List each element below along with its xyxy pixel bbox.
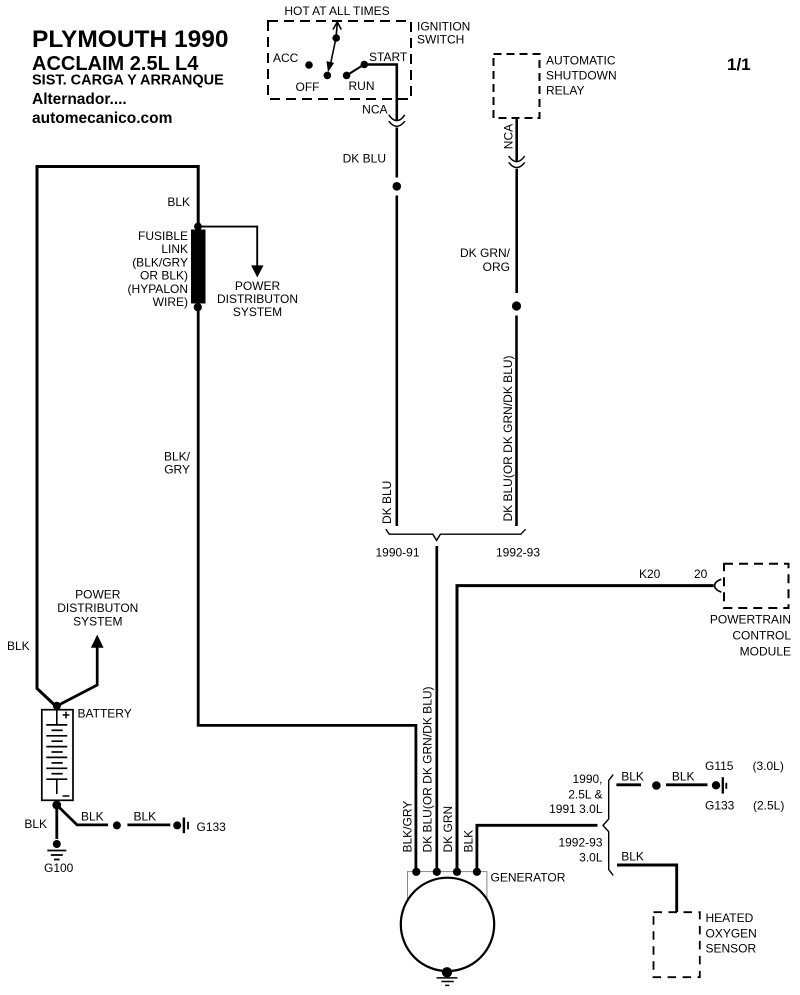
connector break symbol (relay NCA): [509, 156, 525, 162]
generator case ground symbol: [437, 978, 458, 986]
battery B1 case: [42, 710, 73, 801]
svg-text:BLK: BLK: [81, 810, 104, 824]
generator G body: [401, 878, 494, 971]
svg-text:Alternador....: Alternador....: [32, 91, 127, 108]
svg-text:G133: G133: [705, 799, 735, 813]
wire DK BLU lower segment to 1990-91 brace: [395, 196, 398, 527]
svg-text:GRY: GRY: [164, 463, 190, 477]
splice junction on branch: [652, 781, 661, 790]
switch pivot node: [332, 34, 340, 42]
svg-text:DK BLU: DK BLU: [380, 481, 394, 524]
svg-text:FUSIBLE: FUSIBLE: [138, 229, 188, 243]
svg-text:SWITCH: SWITCH: [417, 33, 464, 47]
svg-text:1990,: 1990,: [572, 772, 602, 786]
svg-text:BLK: BLK: [24, 817, 47, 831]
battery plus terminal symbol: [63, 712, 70, 719]
svg-text:1992-93: 1992-93: [496, 546, 540, 560]
wire from brace down to generator: [435, 546, 438, 872]
svg-text:OR BLK): OR BLK): [140, 269, 188, 283]
svg-text:DK GRN/: DK GRN/: [460, 246, 511, 260]
wire K20 from generator to PCM: [457, 586, 714, 872]
wire BLK generator to year brace: [477, 825, 598, 872]
heated oxygen sensor dashed box: [654, 912, 700, 977]
svg-text:BLK: BLK: [167, 195, 190, 209]
svg-text:BLK: BLK: [7, 639, 30, 653]
svg-text:20: 20: [694, 567, 708, 581]
svg-text:CONTROL: CONTROL: [732, 629, 791, 643]
svg-text:(HYPALON: (HYPALON: [128, 282, 188, 296]
node OFF: [324, 72, 332, 80]
svg-text:3.0L: 3.0L: [579, 850, 603, 864]
wire arrow to power distribution system (left, from battery +): [57, 648, 97, 707]
svg-text:2.5L &: 2.5L &: [568, 788, 602, 802]
automatic shutdown relay K1 dashed box: [494, 54, 540, 118]
generator terminal node 2: [433, 868, 441, 876]
node START: [361, 61, 369, 69]
wire DK BLU upper segment: [395, 128, 398, 178]
connector symbol at PCM: [715, 579, 722, 592]
switch wiper arrow toward OFF: [331, 38, 337, 64]
wire BLK/GRY from fusible link to generator: [198, 307, 416, 872]
svg-text:AUTOMATIC: AUTOMATIC: [546, 54, 616, 68]
svg-text:LINK: LINK: [161, 242, 188, 256]
svg-text:SENSOR: SENSOR: [706, 941, 757, 955]
svg-text:POWER: POWER: [75, 588, 121, 602]
battery negative junction node: [52, 801, 61, 810]
svg-text:RUN: RUN: [349, 79, 375, 93]
svg-text:(3.0L): (3.0L): [753, 759, 784, 773]
node ACC: [305, 61, 313, 69]
powertrain control module dashed box: [724, 564, 789, 608]
svg-text:POWER: POWER: [235, 279, 281, 293]
wire from relay down: [515, 118, 518, 161]
wire to power distribution system (right arrow): [198, 227, 257, 266]
svg-text:RELAY: RELAY: [546, 84, 584, 98]
wire BLK battery to G100: [55, 805, 58, 839]
svg-text:PLYMOUTH 1990: PLYMOUTH 1990: [32, 26, 229, 53]
svg-text:NCA: NCA: [501, 124, 515, 149]
svg-text:DK BLU(OR DK GRN/DK BLU): DK BLU(OR DK GRN/DK BLU): [501, 355, 515, 521]
svg-text:SHUTDOWN: SHUTDOWN: [546, 69, 617, 83]
ground G133 symbol: [173, 821, 181, 829]
svg-text:BLK: BLK: [621, 849, 644, 863]
svg-text:BLK: BLK: [621, 769, 644, 783]
svg-text:POWERTRAIN: POWERTRAIN: [710, 613, 791, 627]
junction node at fusible link bottom: [194, 303, 202, 311]
svg-text:1992-93: 1992-93: [558, 836, 602, 850]
svg-text:SYSTEM: SYSTEM: [233, 305, 282, 319]
svg-text:DISTRIBUTON: DISTRIBUTON: [57, 601, 138, 615]
svg-text:(BLK/GRY: (BLK/GRY: [132, 255, 188, 269]
ignition switch S1 dashed box: [268, 21, 411, 99]
switch feed arrow up to HOT: [336, 23, 337, 38]
svg-text:DK BLU(OR DK GRN/DK BLU): DK BLU(OR DK GRN/DK BLU): [420, 686, 434, 852]
svg-text:(2.5L): (2.5L): [753, 799, 784, 813]
svg-text:1991 3.0L: 1991 3.0L: [549, 802, 603, 816]
fusible link body: [191, 230, 206, 304]
svg-text:G133: G133: [197, 820, 227, 834]
wire RUN to START: [347, 65, 365, 76]
wire BLK 1992-93 branch to heated oxygen sensor: [617, 865, 677, 912]
generator terminal node 1: [412, 868, 420, 876]
svg-text:IGNITION: IGNITION: [417, 20, 470, 34]
svg-text:BATTERY: BATTERY: [78, 707, 132, 721]
svg-text:automecanico.com: automecanico.com: [32, 110, 172, 127]
generator terminal node 4: [473, 868, 481, 876]
ground G115/G133 symbol: [712, 781, 720, 789]
wire BLK 1990/2.5L branch: [616, 783, 641, 786]
svg-text:START: START: [369, 50, 408, 64]
svg-text:SIST. CARGA Y ARRANQUE: SIST. CARGA Y ARRANQUE: [32, 73, 224, 89]
wire lower segment to 1992-93 brace: [515, 316, 518, 527]
splice junction on DK GRN/ORG wire: [512, 301, 521, 310]
brace splitting BLK by model year: [603, 775, 613, 876]
battery bottom terminal stem: [56, 779, 58, 794]
arrowhead power distribution right: [251, 265, 263, 277]
svg-text:OFF: OFF: [296, 80, 320, 94]
svg-text:SYSTEM: SYSTEM: [73, 615, 122, 629]
svg-text:ORG: ORG: [483, 260, 510, 274]
svg-text:1990-91: 1990-91: [375, 546, 419, 560]
brace merging 1990-91 and 1992-93 wires: [386, 529, 526, 540]
battery plates: [46, 725, 67, 779]
generator terminal node 3: [453, 868, 461, 876]
svg-text:GENERATOR: GENERATOR: [491, 871, 566, 885]
svg-text:WIRE): WIRE): [153, 295, 188, 309]
svg-text:BLK: BLK: [672, 769, 695, 783]
generator case ground node: [442, 967, 452, 977]
battery top terminal stem: [56, 710, 58, 725]
svg-text:OXYGEN: OXYGEN: [706, 926, 757, 940]
arrowhead power distribution left: [91, 635, 104, 648]
wire START to ignition output: [364, 65, 397, 121]
ground G100: [53, 840, 61, 848]
svg-text:DISTRIBUTON: DISTRIBUTON: [217, 292, 298, 306]
svg-text:BLK/GRY: BLK/GRY: [400, 801, 414, 853]
svg-text:1/1: 1/1: [727, 55, 751, 74]
junction node at fusible link top: [194, 223, 202, 231]
wire BLK battery to G133: [57, 805, 108, 825]
svg-text:NCA: NCA: [362, 103, 387, 117]
battery minus terminal symbol: [63, 795, 70, 797]
svg-text:G100: G100: [44, 861, 74, 875]
svg-text:G115: G115: [705, 759, 734, 773]
connector break symbol (ignition NCA): [389, 115, 405, 121]
svg-text:HOT AT ALL TIMES: HOT AT ALL TIMES: [284, 4, 389, 18]
svg-text:BLK/: BLK/: [164, 449, 191, 463]
svg-text:ACC: ACC: [273, 51, 299, 65]
battery B1 positive junction node: [53, 702, 61, 710]
wire loop: battery positive feed to fusible link: [37, 167, 198, 708]
splice junction on DK BLU wire: [393, 182, 402, 191]
splice junction on BLK wire: [113, 821, 121, 829]
svg-text:HEATED: HEATED: [706, 911, 754, 925]
svg-text:BLK: BLK: [134, 810, 157, 824]
generator connector box: [408, 872, 487, 899]
svg-text:DK GRN: DK GRN: [441, 806, 455, 853]
svg-text:K20: K20: [639, 567, 661, 581]
node RUN: [343, 72, 351, 80]
svg-text:MODULE: MODULE: [740, 645, 791, 659]
svg-text:DK BLU: DK BLU: [343, 152, 386, 166]
wire DK GRN/ORG upper segment: [515, 169, 518, 293]
svg-text:BLK: BLK: [461, 830, 475, 853]
